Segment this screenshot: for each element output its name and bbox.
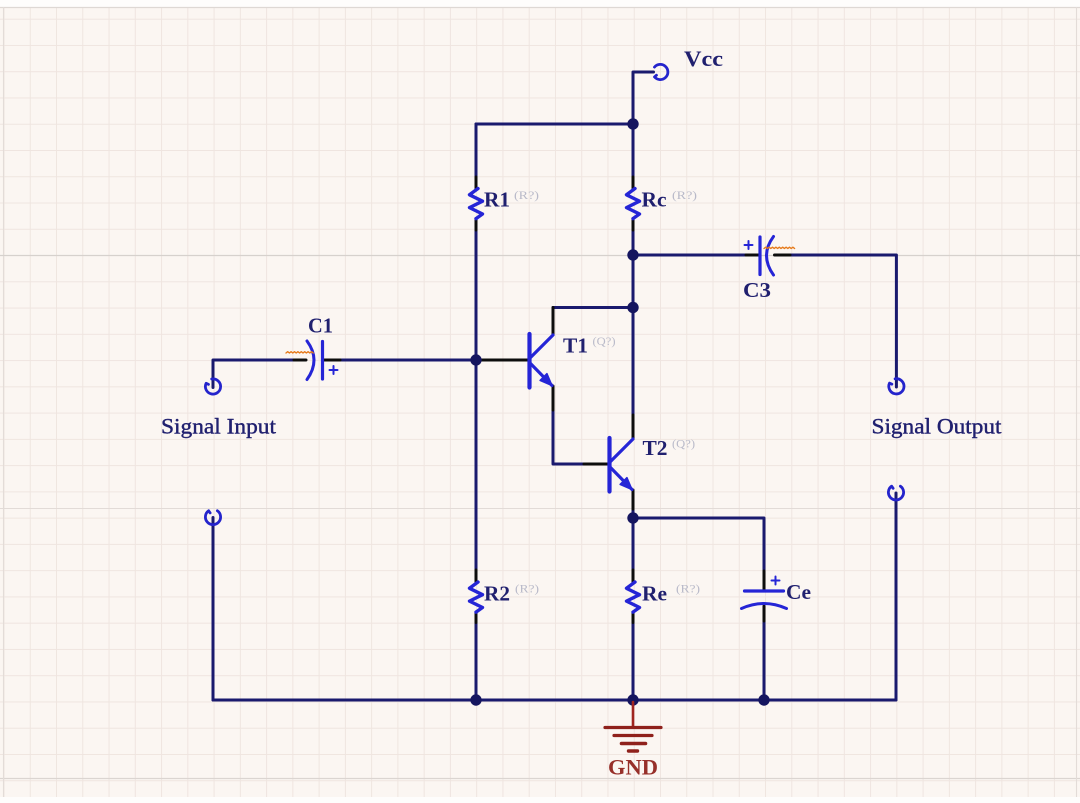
wire Re to bottom bus (632, 622, 635, 700)
wire Rc branch upper (632, 124, 635, 178)
junction node bus Ce (758, 694, 769, 705)
junction node T1 base (470, 354, 481, 365)
svg-text:Signal Input: Signal Input (161, 414, 276, 439)
svg-text:R1: R1 (484, 188, 510, 212)
svg-text:(R?): (R?) (515, 582, 539, 596)
svg-text:Signal Output: Signal Output (872, 414, 1002, 439)
transistor T1 (479, 308, 616, 411)
junction node top (Vcc rail) (627, 118, 638, 129)
junction node T1 collector (627, 302, 638, 313)
wire top horizontal (476, 123, 633, 126)
junction node C3 row (627, 249, 638, 260)
svg-text:(R?): (R?) (672, 188, 697, 202)
wire base node to R2 (475, 360, 478, 571)
wire emitter node to Re (632, 518, 635, 571)
svg-text:(Q?): (Q?) (672, 437, 695, 451)
capacitor Ce (742, 571, 812, 621)
wire Ce to bottom bus (763, 621, 766, 701)
svg-text:C1: C1 (308, 314, 333, 338)
port Vcc (654, 46, 723, 80)
wire C3 node to C3 left pin (633, 254, 747, 257)
wire R1 branch upper (475, 124, 478, 178)
capacitor C1 (286, 314, 340, 380)
port output ground side (888, 486, 903, 500)
resistor R1 (470, 177, 540, 230)
svg-text:GND: GND (608, 755, 658, 780)
wire R2 to bottom bus (475, 622, 478, 700)
svg-text:(R?): (R?) (676, 582, 700, 596)
wire T2 emitter to emitter node (632, 509, 635, 519)
wire lower-left port to bus (212, 518, 215, 701)
junction node bus GND (627, 694, 638, 705)
wire Rc to C3 node (632, 230, 635, 256)
svg-text:R2: R2 (484, 582, 510, 606)
svg-text:(Q?): (Q?) (593, 334, 616, 348)
wire bottom bus (213, 699, 896, 702)
svg-text:Vcc: Vcc (684, 46, 723, 71)
wire T1 emitter down and to T2 base (553, 410, 585, 465)
port Signal Input (161, 379, 276, 439)
wire C3 right to output port (789, 255, 896, 387)
svg-text:(R?): (R?) (514, 188, 539, 202)
wire output lower port to bus (895, 493, 898, 700)
capacitor C3 (743, 237, 795, 303)
wire R1 to base node (475, 230, 478, 361)
ground GND (605, 702, 661, 780)
svg-text:Ce: Ce (786, 580, 811, 604)
resistor Rc (627, 177, 698, 230)
wire emitter node to Ce (633, 518, 764, 572)
resistor Re (627, 570, 701, 623)
transistor T2 (584, 415, 695, 509)
resistor R2 (470, 570, 540, 623)
svg-text:T1: T1 (563, 334, 588, 358)
wire T1 collector horizontal (553, 306, 633, 309)
wire Vcc stub (633, 72, 654, 124)
junction node emitter (627, 512, 638, 523)
svg-text:T2: T2 (643, 436, 668, 460)
svg-text:Re: Re (642, 582, 667, 606)
wire C3 node to collector node (632, 255, 635, 308)
wire C1 to base node (340, 359, 477, 362)
svg-text:C3: C3 (743, 278, 771, 302)
wire collector node to T2 collector (632, 308, 635, 416)
port input ground side (205, 511, 220, 525)
port Signal Output (872, 379, 1002, 439)
wire signal input to C1 (213, 360, 295, 388)
svg-text:Rc: Rc (642, 188, 667, 212)
junction node bus R2 (470, 694, 481, 705)
